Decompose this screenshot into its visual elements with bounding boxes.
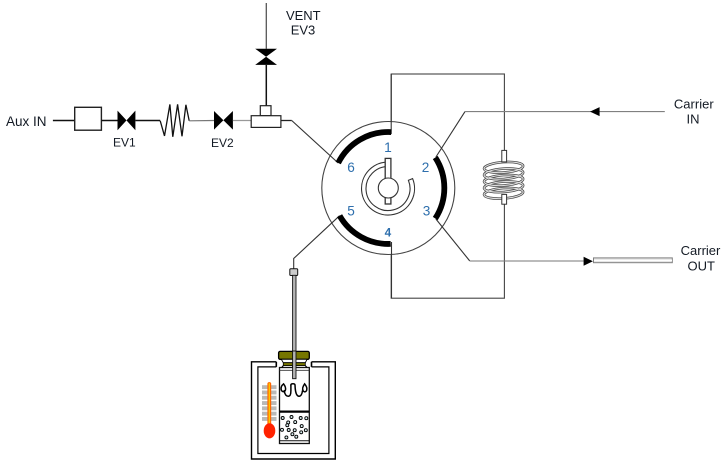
wire carrier out	[470, 260, 584, 262]
coil stub bottom	[502, 194, 507, 204]
arrowhead carrier in	[590, 107, 600, 116]
svg-text:5: 5	[347, 204, 355, 219]
vial bottom inner line	[280, 440, 310, 442]
thermometer scale ticks	[262, 385, 277, 421]
svg-text:4: 4	[385, 226, 392, 240]
valve EV3 (vent solenoid valve)	[255, 49, 277, 65]
valve EV1	[118, 111, 136, 131]
wire vent line top	[265, 3, 267, 49]
label Carrier IN	[674, 97, 714, 127]
vial cap flange	[279, 351, 310, 359]
wire port 1	[390, 74, 392, 134]
filter box	[75, 107, 102, 130]
needle tube	[293, 275, 296, 378]
sample loop coil backing	[486, 155, 521, 201]
thermometer bulb	[264, 423, 276, 438]
thermometer tube	[267, 382, 271, 426]
svg-text:EV1: EV1	[113, 136, 136, 150]
wire port 2 to carrier in	[436, 112, 465, 157]
svg-text:IN: IN	[687, 112, 700, 127]
needle fitting	[290, 269, 298, 276]
channel arc ports 4-5	[340, 216, 391, 244]
svg-text:EV2: EV2	[211, 136, 234, 150]
rotor slot	[385, 158, 391, 204]
svg-text:OUT: OUT	[687, 259, 715, 274]
wire filter to EV1	[101, 120, 117, 122]
valve EV2	[214, 111, 233, 130]
svg-text:EV3: EV3	[291, 23, 316, 38]
wire restrictor to EV2	[189, 120, 214, 122]
wire port 3 to carrier out corner	[436, 219, 470, 261]
rotor ring	[362, 162, 415, 215]
tee fitting	[251, 106, 281, 128]
arrowhead carrier out	[584, 257, 593, 266]
sample loop coil	[484, 161, 524, 200]
coil stub top	[502, 150, 507, 162]
wire port 6 from tee	[292, 121, 339, 164]
svg-text:Aux IN: Aux IN	[6, 114, 47, 129]
needle inside vial	[293, 351, 296, 379]
label Carrier OUT	[681, 243, 721, 274]
vial top rim line	[280, 369, 310, 371]
vial neck slants	[282, 366, 308, 368]
wire port 4	[391, 242, 393, 298]
oven rectangle	[391, 74, 504, 298]
vial cap band	[283, 363, 305, 366]
channel arc ports 2-3	[435, 158, 444, 219]
channel arc ports 6-1	[338, 132, 391, 163]
vapor swirl icon	[281, 384, 307, 397]
wire EV2 to tee	[233, 120, 251, 122]
heater box lip right	[311, 362, 313, 367]
wire port 5 to needle	[294, 216, 340, 270]
wire EV3 to tee	[265, 65, 267, 106]
valve body circle	[322, 122, 455, 255]
svg-text:VENT: VENT	[286, 8, 321, 23]
svg-text:1: 1	[384, 140, 392, 155]
rotor center knob	[378, 178, 398, 198]
wire carrier in	[465, 111, 665, 113]
bubbles in liquid	[281, 416, 308, 439]
heater box inner	[258, 367, 329, 454]
svg-text:Carrier: Carrier	[674, 97, 714, 112]
heater box outer	[252, 362, 336, 459]
wire tee to bend	[281, 120, 292, 122]
svg-text:Carrier: Carrier	[681, 243, 721, 258]
vial cap crimp	[281, 359, 307, 362]
column thick bar carrier out	[594, 258, 673, 263]
wire EV1 to restrictor	[135, 120, 160, 122]
svg-text:3: 3	[423, 204, 431, 219]
svg-text:6: 6	[347, 160, 355, 175]
wire Aux IN to filter	[53, 120, 75, 122]
liquid surface line	[280, 410, 310, 412]
svg-text:2: 2	[422, 160, 430, 175]
vial body	[280, 368, 310, 444]
heater box lip left	[275, 362, 277, 367]
restrictor zigzag	[160, 104, 189, 136]
